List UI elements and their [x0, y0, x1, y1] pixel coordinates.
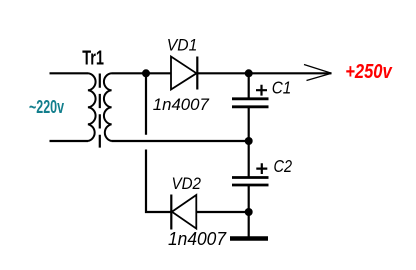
wire VD2 anode to node D — [197, 211, 249, 213]
wire mid rail secondary bottom to node B — [112, 140, 249, 142]
node A junction dot — [142, 69, 150, 77]
diode VD1 — [171, 57, 197, 90]
svg-text:+250v: +250v — [345, 61, 393, 83]
wire VD1 cathode to output arrow — [197, 72, 331, 74]
wire primary bottom lead — [50, 140, 89, 142]
svg-text:~220v: ~220v — [29, 97, 64, 117]
svg-text:1n4007: 1n4007 — [153, 95, 210, 114]
wire node A down to VD2 cathode (with crossover break) — [146, 73, 171, 212]
svg-text:C1: C1 — [272, 77, 292, 97]
ground — [230, 236, 268, 241]
svg-text:Tr1: Tr1 — [82, 48, 104, 70]
output arrow head — [304, 65, 332, 81]
label + C1 — [256, 77, 291, 97]
capacitor C1 — [232, 73, 269, 141]
wire secondary top to VD1 anode — [112, 72, 172, 74]
label + C2 — [256, 156, 292, 176]
svg-text:C2: C2 — [274, 156, 293, 176]
wire primary top lead — [50, 72, 89, 74]
capacitor C2 — [232, 141, 269, 212]
svg-text:1n4007: 1n4007 — [168, 229, 227, 249]
node D junction dot (C2 bottom / ground) — [245, 208, 253, 216]
svg-text:VD2: VD2 — [172, 175, 202, 193]
transformer Tr1 primary winding — [88, 73, 96, 141]
transformer Tr1 core — [99, 74, 101, 148]
transformer Tr1 secondary winding — [104, 73, 112, 141]
diode VD2 — [171, 195, 196, 230]
wire node D to ground — [248, 212, 250, 237]
node C junction dot (output / C1 top) — [245, 69, 253, 77]
node B junction dot (C1/C2 midpoint) — [245, 137, 253, 145]
svg-text:VD1: VD1 — [167, 37, 198, 55]
